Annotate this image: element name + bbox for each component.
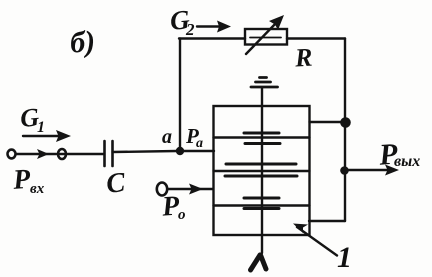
- resistor R adjust diagonal arrow: [246, 15, 284, 54]
- capacitor C plates: [105, 141, 113, 166]
- membrane divider 2: [214, 170, 310, 172]
- wire input line: [16, 153, 104, 155]
- svg-text:вых: вых: [394, 153, 420, 170]
- leader line for label 1: [293, 224, 337, 256]
- svg-text:1: 1: [337, 241, 352, 274]
- wire capacitor to node a: [113, 151, 178, 152]
- label G1: [19, 102, 45, 136]
- label R: [293, 43, 313, 73]
- wire node a to block: [183, 150, 214, 152]
- svg-text:a: a: [196, 136, 203, 151]
- arrow on input wire: [37, 149, 49, 159]
- svg-text:C: C: [105, 167, 127, 200]
- spring chevron below block: [251, 255, 267, 270]
- resistor R inner line: [250, 37, 281, 39]
- throttle orifice on input wire: [58, 149, 66, 159]
- wire right vertical: [344, 39, 346, 222]
- block 1 membrane unit body: [214, 106, 310, 235]
- junction dot upper right: [340, 117, 351, 128]
- arrow output Pвых: [344, 165, 399, 176]
- svg-text:o: o: [178, 207, 186, 223]
- membrane 3 discs: [244, 198, 279, 209]
- junction dot output: [340, 166, 349, 175]
- label б) figure part marker: [69, 25, 96, 60]
- wire bottom right horizontal to block: [309, 220, 345, 222]
- arrow G1 flow: [23, 130, 71, 142]
- label G2: [169, 4, 195, 39]
- label C: [105, 167, 127, 200]
- membrane divider 1: [214, 136, 310, 138]
- resistor R variable throttle body: [245, 29, 287, 45]
- ground symbol above block: [251, 78, 278, 88]
- node a junction dot: [176, 147, 184, 155]
- label Pвх: [11, 164, 45, 197]
- label a: [162, 126, 172, 148]
- membrane 1 discs: [244, 133, 280, 144]
- membrane divider 3: [214, 204, 310, 206]
- central stem rod: [261, 88, 263, 254]
- terminal Pвх circle: [8, 150, 16, 159]
- label 1: [337, 241, 352, 274]
- svg-text:вх: вх: [30, 181, 45, 197]
- wire P0 to block with arrow: [168, 184, 213, 195]
- svg-text:a: a: [162, 126, 172, 148]
- membrane 2 discs: [225, 164, 297, 176]
- svg-text:1: 1: [37, 119, 45, 136]
- label Pвых: [377, 137, 420, 171]
- label Pa: [185, 124, 203, 151]
- svg-text:б): б): [69, 25, 96, 60]
- terminal P0 circle: [157, 183, 167, 196]
- wire resistor to right vertical: [287, 37, 345, 39]
- svg-text:R: R: [293, 43, 313, 73]
- wire block right to vertical junction: [310, 121, 346, 123]
- wire node a vertical up to top loop: [179, 39, 181, 149]
- svg-text:P: P: [11, 164, 32, 196]
- label P0: [160, 190, 185, 223]
- wire top left horizontal to resistor: [179, 37, 245, 39]
- svg-text:2: 2: [185, 20, 195, 39]
- arrow G2 flow: [197, 21, 231, 33]
